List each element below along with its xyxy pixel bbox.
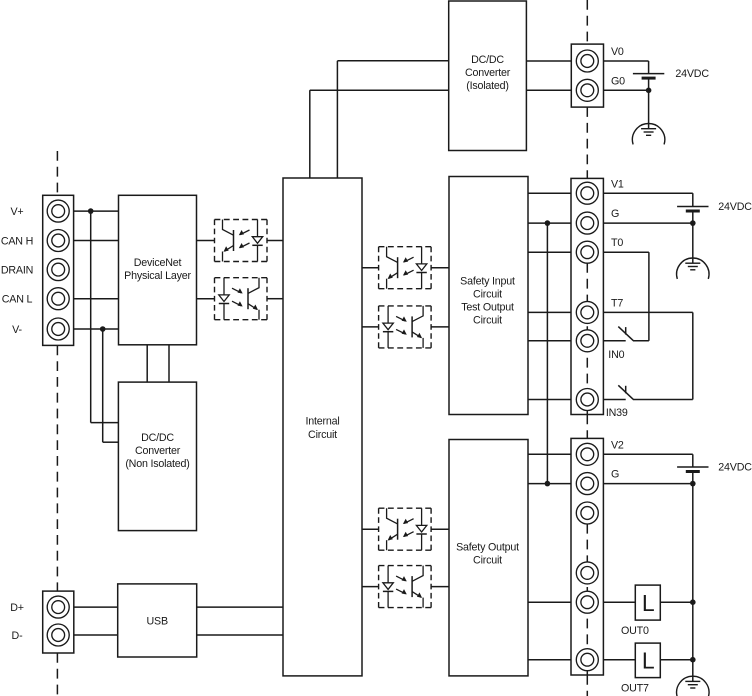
svg-text:V0: V0 <box>611 46 624 58</box>
svg-text:T7: T7 <box>611 297 623 309</box>
svg-text:CAN L: CAN L <box>2 294 33 306</box>
svg-text:DRAIN: DRAIN <box>1 265 33 277</box>
svg-text:Circuit: Circuit <box>473 289 502 301</box>
svg-text:Circuit: Circuit <box>473 555 502 567</box>
svg-text:IN39: IN39 <box>606 407 628 419</box>
svg-text:V-: V- <box>12 324 22 336</box>
svg-text:G: G <box>611 469 619 481</box>
svg-text:Test Output: Test Output <box>461 302 514 314</box>
svg-text:DeviceNet: DeviceNet <box>134 257 182 269</box>
svg-text:D-: D- <box>12 630 24 642</box>
svg-text:24VDC: 24VDC <box>718 462 752 474</box>
svg-text:Safety Input: Safety Input <box>460 275 515 287</box>
svg-text:IN0: IN0 <box>608 349 624 361</box>
svg-text:L: L <box>642 648 655 674</box>
svg-text:Physical Layer: Physical Layer <box>124 270 191 282</box>
svg-text:Circuit: Circuit <box>473 315 502 327</box>
svg-text:OUT7: OUT7 <box>621 683 649 695</box>
svg-text:V1: V1 <box>611 178 624 190</box>
svg-text:24VDC: 24VDC <box>718 201 752 213</box>
svg-text:Converter: Converter <box>135 445 181 457</box>
svg-text:D+: D+ <box>10 602 24 614</box>
svg-text:CAN H: CAN H <box>1 235 33 247</box>
svg-text:DC/DC: DC/DC <box>141 432 174 444</box>
svg-text:24VDC: 24VDC <box>675 68 709 80</box>
svg-text:DC/DC: DC/DC <box>471 54 504 66</box>
svg-text:Converter: Converter <box>465 67 511 79</box>
svg-text:(Isolated): (Isolated) <box>466 80 509 92</box>
svg-text:OUT0: OUT0 <box>621 625 649 637</box>
svg-text:T0: T0 <box>611 237 623 249</box>
svg-text:Circuit: Circuit <box>308 429 337 441</box>
svg-text:Safety Output: Safety Output <box>456 542 519 554</box>
svg-text:V2: V2 <box>611 439 624 451</box>
svg-text:G: G <box>611 208 619 220</box>
svg-text:G0: G0 <box>611 75 625 87</box>
svg-text:USB: USB <box>147 616 168 628</box>
svg-text:Internal: Internal <box>305 416 339 428</box>
svg-text:(Non Isolated): (Non Isolated) <box>125 458 189 470</box>
svg-text:V+: V+ <box>11 206 24 218</box>
svg-text:L: L <box>642 590 655 616</box>
